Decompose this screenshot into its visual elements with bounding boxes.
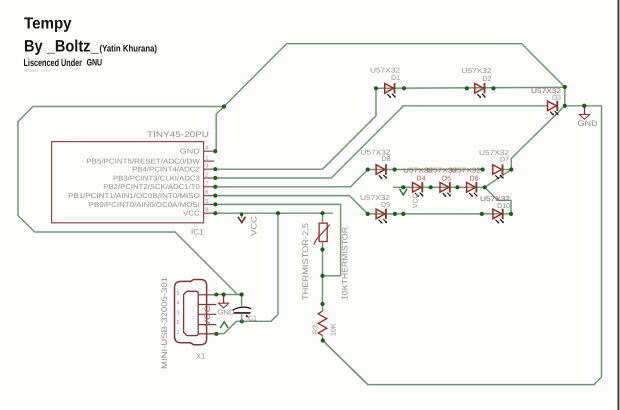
svg-text:C1: C1 <box>248 316 257 323</box>
svg-text:GND: GND <box>577 119 598 128</box>
svg-text:3: 3 <box>177 310 180 316</box>
svg-text:VCC: VCC <box>413 194 420 209</box>
svg-text:5: 5 <box>177 291 180 297</box>
svg-text:10KTHERMISTOR: 10KTHERMISTOR <box>341 227 350 300</box>
svg-text:By _Boltz_: By _Boltz_ <box>24 38 99 56</box>
svg-text:2: 2 <box>177 320 180 326</box>
svg-text:7: 7 <box>205 181 208 187</box>
svg-text:GND: GND <box>218 310 235 317</box>
svg-text:VCC: VCC <box>203 305 212 326</box>
svg-text:D3: D3 <box>552 95 561 102</box>
svg-text:Tempy: Tempy <box>24 16 72 33</box>
svg-text:VCC: VCC <box>183 211 200 218</box>
svg-text:PB5/PCINT5/RESET/ADC0/DW: PB5/PCINT5/RESET/ADC0/DW <box>86 158 200 166</box>
svg-text:U57X32: U57X32 <box>370 68 400 75</box>
svg-text:PB4/PCINT4/ADC2: PB4/PCINT4/ADC2 <box>132 166 200 174</box>
svg-text:D4: D4 <box>417 176 426 183</box>
svg-text:THERMISTOR-2,5: THERMISTOR-2,5 <box>301 222 310 300</box>
svg-text:1: 1 <box>205 156 208 162</box>
svg-text:D8: D8 <box>382 156 391 163</box>
svg-text:GNU: GNU <box>87 58 103 69</box>
svg-text:Liscenced Under: Liscenced Under <box>24 58 83 69</box>
svg-text:D9: D9 <box>381 202 390 209</box>
svg-text:R3: R3 <box>313 325 320 334</box>
svg-text:PB0/PCINT0/AIN0/OC0A/MOSI: PB0/PCINT0/AIN0/OC0A/MOSI <box>89 201 200 209</box>
svg-text:1: 1 <box>177 330 180 336</box>
svg-text:GND: GND <box>180 149 200 156</box>
svg-text:D7: D7 <box>500 157 509 164</box>
svg-text:X1: X1 <box>196 352 205 361</box>
svg-text:8: 8 <box>205 207 208 214</box>
svg-text:D10: D10 <box>497 203 510 210</box>
svg-text:U57X32: U57X32 <box>480 196 510 203</box>
svg-text:4: 4 <box>177 301 180 307</box>
svg-text:PB2/PCINT2/SCK/ADC1/T0: PB2/PCINT2/SCK/ADC1/T0 <box>103 183 200 191</box>
svg-text:10K: 10K <box>331 323 338 336</box>
svg-text:D6: D6 <box>470 176 479 183</box>
svg-text:6: 6 <box>205 189 208 196</box>
svg-text:3: 3 <box>205 163 208 170</box>
svg-text:U57X32: U57X32 <box>360 195 390 202</box>
svg-text:PB3/PCINT3/CLKI/ADC3: PB3/PCINT3/CLKI/ADC3 <box>113 174 200 182</box>
svg-text:2: 2 <box>205 172 208 179</box>
svg-text:IC1: IC1 <box>191 228 204 237</box>
svg-text:VCC: VCC <box>250 216 259 236</box>
svg-text:U57X32: U57X32 <box>462 68 492 75</box>
svg-text:PB1/PCINT1/AIN1/OC0B/INT0/MISO: PB1/PCINT1/AIN1/OC0B/INT0/MISO <box>68 192 200 200</box>
svg-text:TINY45-20PU: TINY45-20PU <box>147 130 209 139</box>
svg-text:MINI-USB-32005-301: MINI-USB-32005-301 <box>160 276 169 369</box>
svg-text:5: 5 <box>205 199 208 205</box>
svg-text:D5: D5 <box>442 176 451 183</box>
svg-text:U57X32: U57X32 <box>451 167 481 174</box>
svg-text:D2: D2 <box>483 76 492 83</box>
svg-text:D1: D1 <box>391 75 400 82</box>
svg-text:(Yatin Khurana): (Yatin Khurana) <box>100 44 158 55</box>
